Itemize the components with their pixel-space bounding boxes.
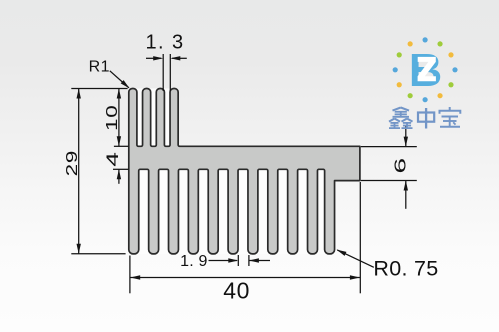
svg-text:1. 3: 1. 3 — [146, 31, 185, 53]
svg-text:29: 29 — [64, 150, 81, 176]
svg-text:1. 9: 1. 9 — [180, 253, 208, 270]
svg-text:10: 10 — [104, 105, 121, 131]
svg-text:R1: R1 — [89, 58, 110, 75]
svg-text:R0. 75: R0. 75 — [373, 257, 438, 281]
svg-text:6: 6 — [391, 157, 409, 173]
svg-text:40: 40 — [223, 277, 250, 303]
svg-text:4: 4 — [103, 151, 122, 166]
